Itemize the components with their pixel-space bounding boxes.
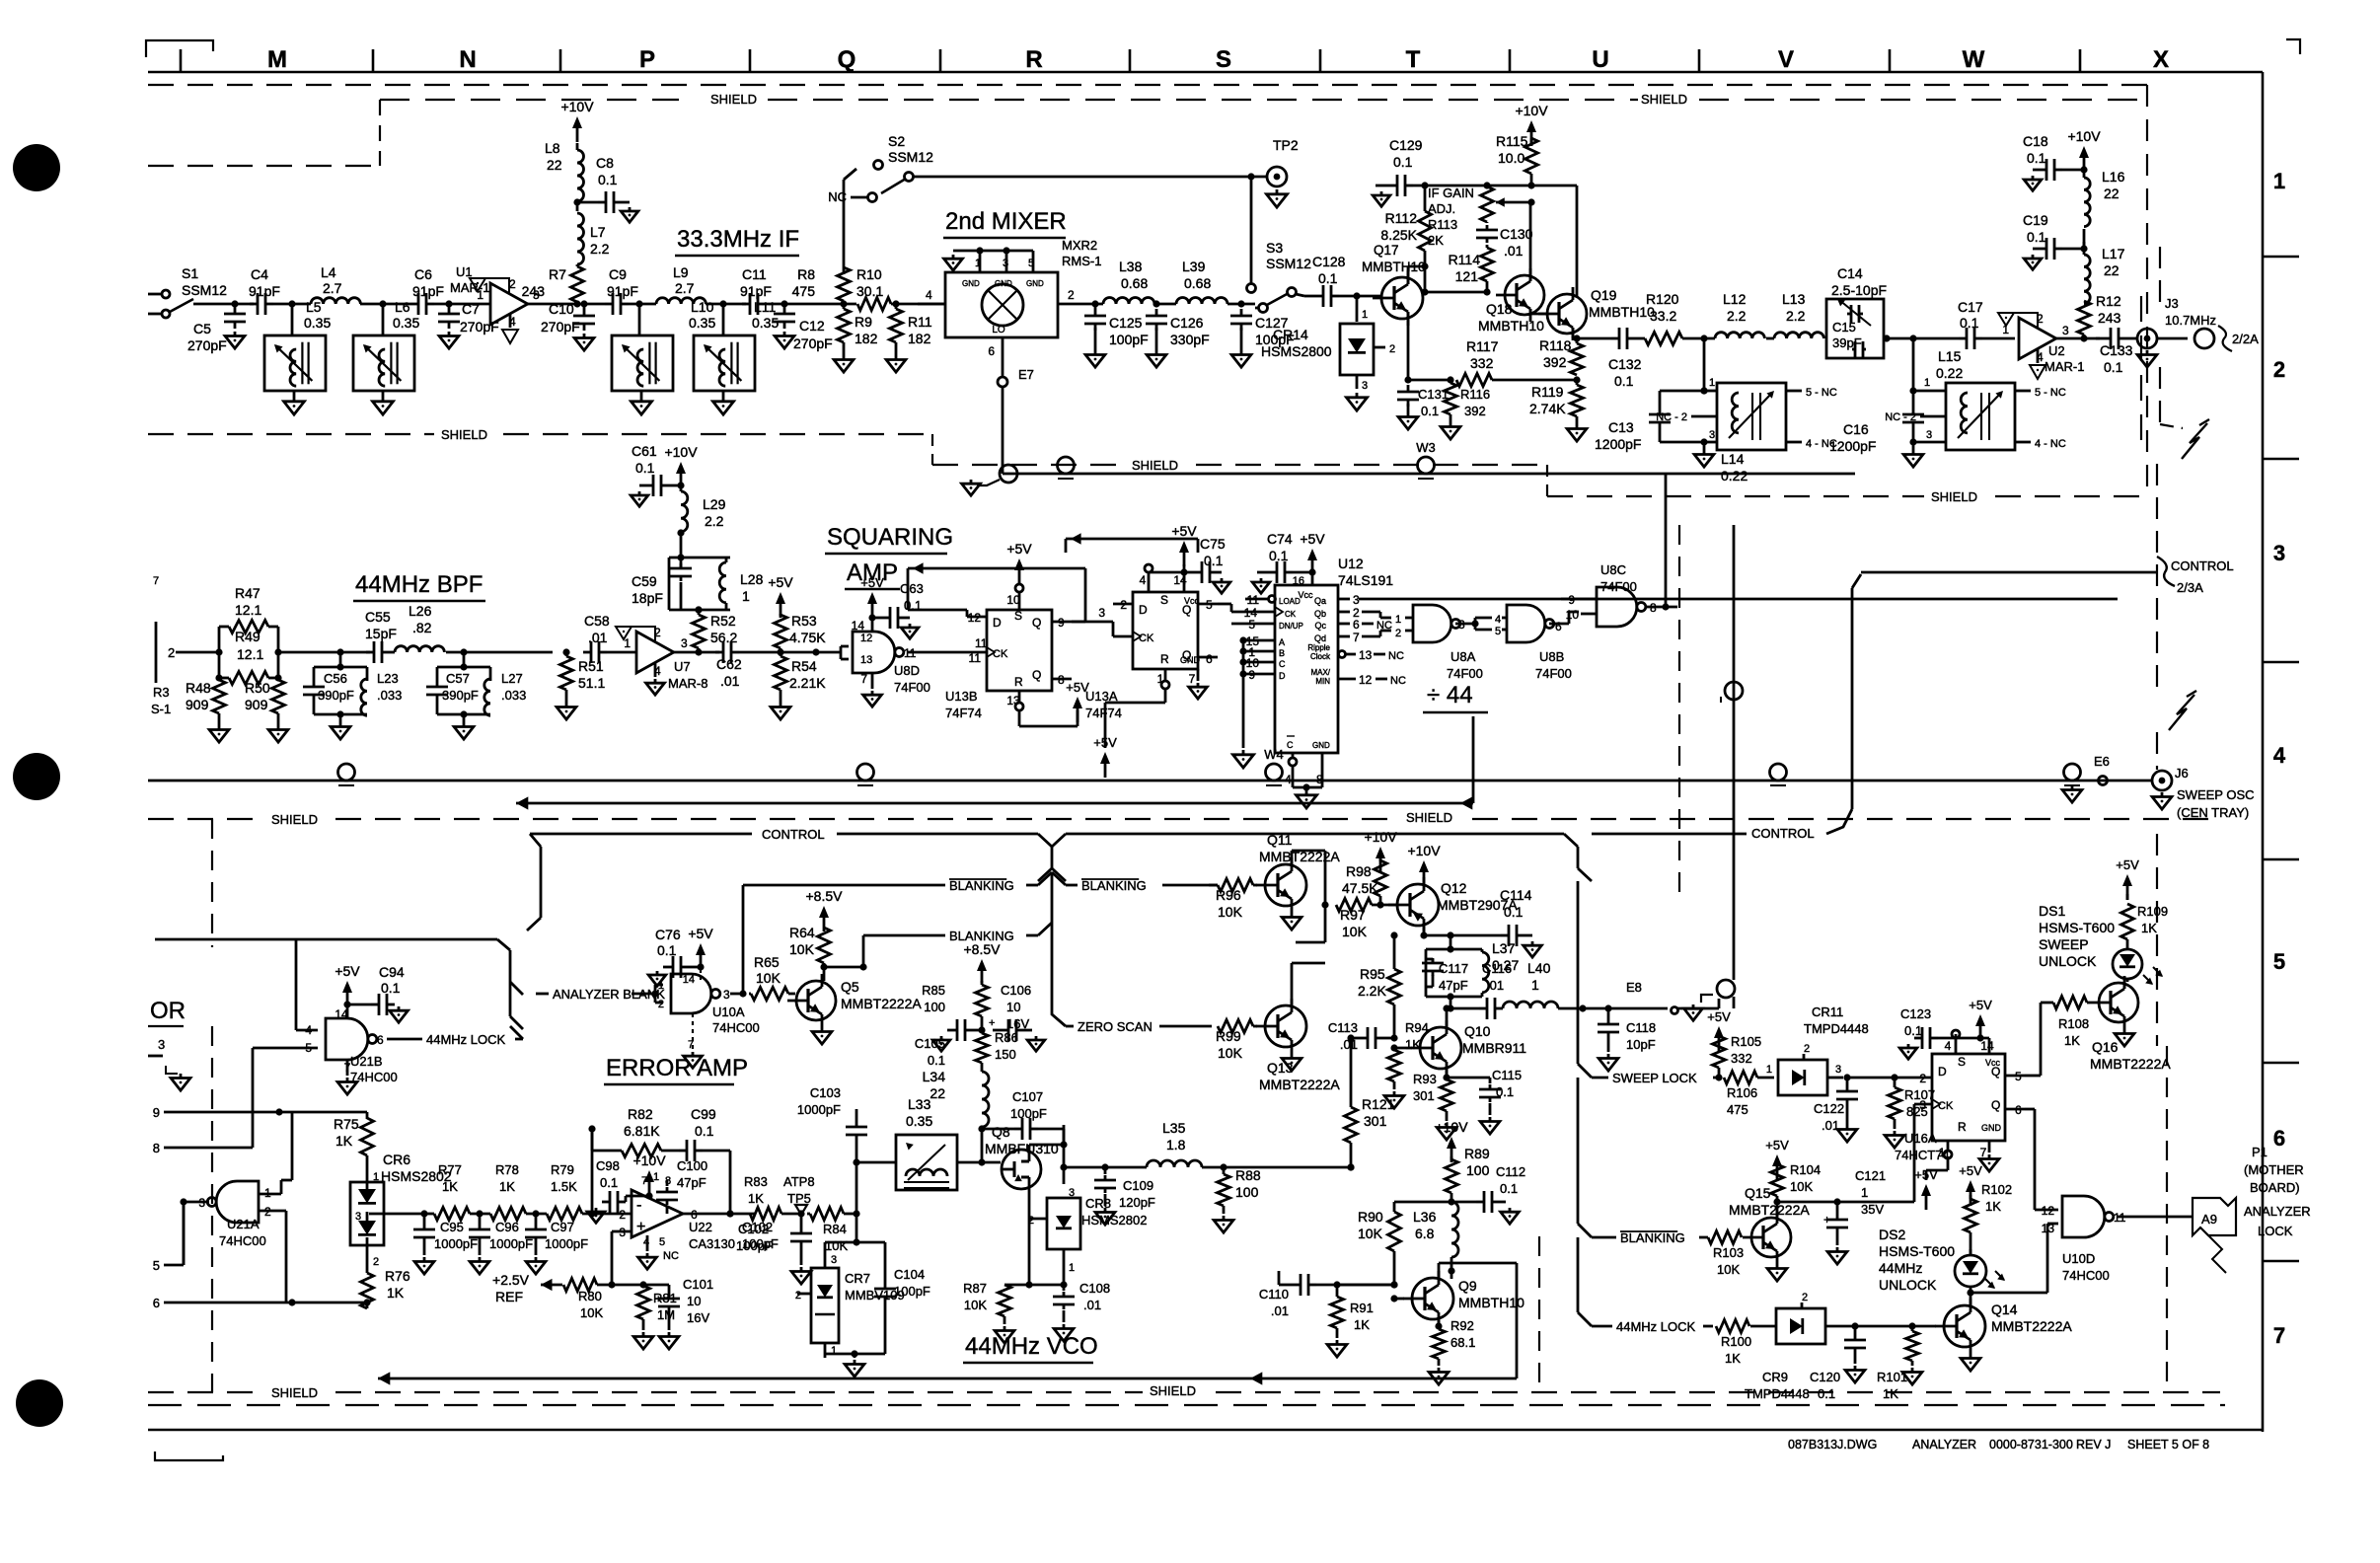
svg-text:3: 3 bbox=[1835, 1064, 1841, 1076]
svg-text:RMS-1: RMS-1 bbox=[1062, 254, 1101, 268]
svg-text:12: 12 bbox=[2042, 1204, 2055, 1218]
grid tick top bbox=[1319, 49, 1322, 72]
svg-text:R3: R3 bbox=[153, 685, 170, 700]
wire shield row bbox=[1003, 473, 1855, 476]
svg-text:R10: R10 bbox=[856, 266, 882, 282]
svg-text:NC - 2: NC - 2 bbox=[1656, 411, 1687, 423]
svg-text:R88: R88 bbox=[1235, 1167, 1261, 1183]
svg-text:10.7MHz: 10.7MHz bbox=[2165, 313, 2216, 328]
svg-text:+10V: +10V bbox=[1435, 1119, 1468, 1135]
svg-text:C109: C109 bbox=[1123, 1178, 1153, 1193]
svg-text:243: 243 bbox=[2098, 310, 2121, 326]
svg-text:R94: R94 bbox=[1405, 1020, 1429, 1035]
svg-text:SHIELD: SHIELD bbox=[1931, 489, 1977, 504]
svg-text:C57: C57 bbox=[446, 671, 470, 686]
svg-text:IF GAIN: IF GAIN bbox=[1428, 186, 1474, 200]
svg-text:1K: 1K bbox=[1405, 1037, 1421, 1052]
svg-text:2: 2 bbox=[2037, 312, 2044, 326]
svg-text:0.35: 0.35 bbox=[304, 315, 331, 331]
svg-text:+: + bbox=[655, 1294, 661, 1305]
wire R121 bottom row bbox=[1312, 1166, 1351, 1169]
svg-text:L40: L40 bbox=[1527, 960, 1551, 976]
shield dashed vertical J3 upper bbox=[2140, 296, 2142, 454]
svg-text:E8: E8 bbox=[1626, 980, 1642, 995]
node L7 top bbox=[573, 198, 580, 205]
svg-text:P1: P1 bbox=[2252, 1145, 2268, 1159]
corner mark top right bbox=[2286, 39, 2300, 54]
wire 44lock right b bbox=[1703, 1325, 1713, 1328]
svg-text:C13: C13 bbox=[1608, 419, 1634, 435]
svg-text:1K: 1K bbox=[1354, 1317, 1370, 1332]
svg-text:44MHz: 44MHz bbox=[1879, 1260, 1922, 1276]
svg-text:2: 2 bbox=[795, 1290, 801, 1302]
wire U8C node up bbox=[1665, 474, 1668, 607]
svg-text:Q14: Q14 bbox=[1991, 1302, 2018, 1317]
svg-text:C: C bbox=[1287, 740, 1294, 750]
svg-text:R100: R100 bbox=[1721, 1334, 1751, 1349]
svg-text:L35: L35 bbox=[1162, 1120, 1186, 1136]
svg-text:4: 4 bbox=[2273, 743, 2286, 768]
wire Q19 out bbox=[1577, 337, 1611, 340]
wire Q17 collector bbox=[1407, 266, 1410, 284]
svg-text:1K: 1K bbox=[1725, 1351, 1741, 1366]
wire C15 out bbox=[1884, 337, 1913, 340]
svg-text:L37: L37 bbox=[1492, 940, 1516, 956]
wire Q12 to C114 row bbox=[1424, 934, 1450, 937]
svg-text:39pF: 39pF bbox=[1832, 335, 1862, 350]
svg-text:NC: NC bbox=[1390, 675, 1406, 687]
transistor Q18 bbox=[1505, 275, 1544, 315]
wire Q14 collector bbox=[1970, 1293, 1972, 1305]
svg-text:1K: 1K bbox=[2064, 1033, 2080, 1048]
wire vert x1762 upper bbox=[1733, 525, 1736, 980]
svg-text:0.1: 0.1 bbox=[1614, 373, 1634, 389]
svg-text:CR8: CR8 bbox=[1085, 1196, 1111, 1211]
border bottom edge bbox=[148, 1429, 2263, 1431]
svg-text:6: 6 bbox=[153, 1296, 160, 1310]
ground hook at E7 row bbox=[1000, 465, 1017, 483]
svg-text:R117: R117 bbox=[1466, 338, 1499, 354]
svg-text:51.1: 51.1 bbox=[578, 675, 605, 691]
wire U21A inputs bbox=[259, 1193, 281, 1196]
inductor L10 tunable bbox=[612, 335, 673, 391]
cable break symbol 1 bbox=[2182, 423, 2207, 459]
wire C11 to R10 bbox=[766, 303, 856, 306]
svg-text:C56: C56 bbox=[324, 671, 347, 686]
svg-text:UNLOCK: UNLOCK bbox=[1879, 1277, 1937, 1293]
wire S2 to TP2 bbox=[914, 176, 1266, 179]
svg-text:BOARD): BOARD) bbox=[2250, 1180, 2300, 1195]
svg-text:2.5-10pF: 2.5-10pF bbox=[1831, 282, 1887, 298]
svg-text:U8C: U8C bbox=[1600, 562, 1626, 577]
wire stub5 to U21A bbox=[183, 1202, 186, 1265]
svg-text:R64: R64 bbox=[789, 925, 815, 940]
svg-text:SHIELD: SHIELD bbox=[271, 1385, 318, 1400]
svg-text:R87: R87 bbox=[963, 1281, 987, 1296]
svg-text:C102: C102 bbox=[738, 1222, 769, 1236]
wire blanking low bbox=[863, 934, 945, 937]
wire C17 to U2 bbox=[1982, 337, 2015, 340]
svg-text:C128: C128 bbox=[1312, 254, 1346, 269]
svg-text:22: 22 bbox=[930, 1085, 945, 1101]
node E7 bbox=[998, 377, 1007, 387]
svg-text:L7: L7 bbox=[590, 224, 606, 240]
svg-text:5: 5 bbox=[153, 1258, 160, 1273]
wire U21B inputs bbox=[296, 1029, 318, 1032]
svg-text:121: 121 bbox=[1455, 268, 1479, 284]
svg-text:L15: L15 bbox=[1938, 348, 1962, 364]
svg-text:A9: A9 bbox=[2201, 1212, 2217, 1227]
svg-text:+10V: +10V bbox=[1515, 103, 1548, 118]
svg-text:GND: GND bbox=[1026, 279, 1044, 288]
led DS1 bbox=[2113, 949, 2142, 979]
svg-text:0.35: 0.35 bbox=[906, 1113, 932, 1129]
svg-text:C125: C125 bbox=[1109, 315, 1143, 331]
svg-text:0.1: 0.1 bbox=[1904, 1023, 1922, 1038]
nand gate U8D bbox=[853, 632, 895, 673]
svg-text:100pF: 100pF bbox=[736, 1238, 773, 1253]
svg-text:182: 182 bbox=[855, 331, 878, 346]
corner bracket top left bbox=[146, 40, 213, 57]
svg-text:C129: C129 bbox=[1389, 137, 1423, 153]
svg-text:MXR2: MXR2 bbox=[1062, 238, 1097, 253]
inductor L33 tunable bbox=[896, 1135, 957, 1190]
feedthrough bbox=[1770, 764, 1787, 781]
shield dashed right vertical lower bbox=[2166, 1046, 2168, 1392]
wire zero scan b bbox=[1159, 1025, 1212, 1028]
svg-text:Q18: Q18 bbox=[1486, 301, 1513, 317]
node E6 bbox=[2099, 777, 2108, 785]
svg-text:L34: L34 bbox=[923, 1069, 946, 1084]
wire L35 out bbox=[1202, 1166, 1312, 1169]
svg-text:30.1: 30.1 bbox=[856, 283, 883, 299]
wire C15 tap down bbox=[1912, 338, 1915, 391]
svg-text:C58: C58 bbox=[584, 613, 610, 629]
svg-text:U12: U12 bbox=[1338, 556, 1364, 571]
svg-text:8: 8 bbox=[665, 1175, 671, 1187]
tank L37 C117 bbox=[1450, 935, 1452, 949]
svg-text:2: 2 bbox=[1802, 1292, 1808, 1303]
svg-text:0.68: 0.68 bbox=[1121, 275, 1148, 291]
svg-text:C126: C126 bbox=[1170, 315, 1204, 331]
switch S3 bbox=[1247, 284, 1256, 293]
control bundle chevron bbox=[1038, 834, 1052, 847]
svg-text:C15: C15 bbox=[1832, 320, 1856, 335]
svg-text:.033: .033 bbox=[377, 688, 402, 703]
flipflop U13A bbox=[1133, 592, 1198, 669]
svg-text:SHIELD: SHIELD bbox=[441, 427, 487, 442]
svg-text:C98: C98 bbox=[596, 1158, 620, 1173]
svg-text:L8: L8 bbox=[545, 140, 560, 156]
svg-text:C103: C103 bbox=[810, 1085, 841, 1100]
svg-text:1: 1 bbox=[1861, 1185, 1868, 1200]
offpage flag A9 bbox=[2193, 1198, 2236, 1235]
svg-text:+: + bbox=[989, 1017, 995, 1029]
power +10V L8 bbox=[576, 122, 579, 142]
svg-text:909: 909 bbox=[186, 697, 209, 712]
wire control mid bbox=[1066, 833, 1564, 836]
punch hole 2 bbox=[13, 753, 60, 800]
svg-text:270pF: 270pF bbox=[460, 319, 499, 335]
connector J6 bbox=[2152, 771, 2172, 790]
svg-text:REV J: REV J bbox=[2076, 1438, 2111, 1451]
feedthrough on shield row bbox=[1058, 457, 1075, 474]
svg-text:R104: R104 bbox=[1790, 1162, 1821, 1177]
potentiometer R113 bbox=[1481, 186, 1494, 222]
wire U12 Qd to U8A bbox=[1362, 635, 1380, 638]
svg-text:X: X bbox=[2153, 46, 2169, 73]
wire U12 Qb to U8A bbox=[1362, 611, 1380, 614]
svg-text:5: 5 bbox=[2273, 949, 2285, 974]
ground U21B bbox=[346, 1078, 349, 1082]
svg-text:0.1: 0.1 bbox=[1269, 548, 1289, 563]
svg-text:0.1: 0.1 bbox=[1504, 904, 1524, 920]
power +5V R109 bbox=[2126, 880, 2129, 900]
flag A9 zigzag bbox=[2208, 1235, 2226, 1273]
svg-text:+5V: +5V bbox=[768, 574, 793, 590]
power +5V R105 bbox=[1718, 1032, 1721, 1052]
svg-text:10K: 10K bbox=[1342, 924, 1368, 939]
wire control elbow bbox=[1826, 809, 1852, 834]
svg-text:R108: R108 bbox=[2058, 1016, 2089, 1031]
power +5V U13B bbox=[1018, 564, 1021, 584]
svg-text:6: 6 bbox=[1555, 620, 1562, 633]
wire blanking top bbox=[743, 884, 945, 887]
svg-text:Q19: Q19 bbox=[1591, 287, 1617, 303]
svg-text:R: R bbox=[1025, 46, 1042, 73]
opamp U22 b bbox=[632, 1190, 683, 1237]
switch S1 bbox=[148, 293, 161, 296]
wire Q18 emitter to Q19 bbox=[1529, 309, 1532, 314]
svg-text:10K: 10K bbox=[964, 1298, 987, 1312]
svg-text:10: 10 bbox=[1006, 1000, 1020, 1014]
transistor Q12 pnp bbox=[1397, 884, 1439, 926]
power +5V U8D bbox=[871, 598, 874, 618]
svg-text:+10V: +10V bbox=[632, 1153, 666, 1168]
svg-text:Vcc: Vcc bbox=[1184, 596, 1200, 606]
svg-text:R: R bbox=[1160, 652, 1169, 666]
shield dashed mid vertical bbox=[1678, 525, 1680, 893]
svg-text:0.1: 0.1 bbox=[1204, 553, 1224, 568]
feedthrough top right bbox=[1717, 980, 1735, 998]
svg-text:C4: C4 bbox=[251, 266, 268, 282]
svg-text:U7: U7 bbox=[674, 659, 691, 674]
svg-text:ATP8: ATP8 bbox=[783, 1174, 815, 1189]
wire Q15 to C121 bbox=[1777, 1201, 1837, 1204]
svg-text:NC: NC bbox=[1388, 650, 1404, 662]
svg-text:L12: L12 bbox=[1723, 291, 1747, 307]
svg-text:CONTROL: CONTROL bbox=[1751, 826, 1815, 841]
svg-text:C112: C112 bbox=[1496, 1164, 1525, 1179]
svg-text:ANALYZER: ANALYZER bbox=[2244, 1204, 2311, 1219]
svg-text:3: 3 bbox=[831, 1254, 837, 1266]
ground U22 pin4 b bbox=[646, 1235, 649, 1251]
svg-text:2.2K: 2.2K bbox=[1358, 983, 1386, 999]
svg-text:C114: C114 bbox=[1500, 887, 1532, 903]
svg-text:MAX/: MAX/ bbox=[1310, 668, 1330, 677]
svg-text:R50: R50 bbox=[245, 680, 270, 696]
shield dashed corner vertical bbox=[379, 100, 381, 166]
svg-text:1K: 1K bbox=[2141, 921, 2157, 935]
svg-text:2: 2 bbox=[1804, 1043, 1810, 1055]
svg-text:C121: C121 bbox=[1855, 1168, 1886, 1183]
svg-text:.01: .01 bbox=[720, 673, 740, 689]
svg-text:L5: L5 bbox=[306, 299, 322, 315]
wire Q19 collector rail bbox=[1576, 186, 1579, 296]
svg-text:C106: C106 bbox=[1001, 983, 1031, 998]
svg-text:3: 3 bbox=[355, 1211, 361, 1223]
svg-text:301: 301 bbox=[1364, 1113, 1387, 1129]
grid tick top bbox=[2079, 49, 2082, 72]
svg-text:C100: C100 bbox=[677, 1158, 707, 1173]
bottom left bracket bbox=[155, 1451, 223, 1460]
wire x1757 lower bbox=[1733, 997, 1736, 1008]
svg-text:MMBFU310: MMBFU310 bbox=[985, 1141, 1059, 1156]
svg-text:1: 1 bbox=[975, 258, 981, 269]
svg-text:CK: CK bbox=[1285, 610, 1297, 619]
wire Q9 emitter bbox=[1438, 1319, 1441, 1326]
svg-text:0.35: 0.35 bbox=[393, 315, 419, 331]
svg-text:CA3130: CA3130 bbox=[689, 1236, 735, 1251]
svg-text:0000-8731-300: 0000-8731-300 bbox=[1989, 1438, 2073, 1451]
svg-text:74F00: 74F00 bbox=[1447, 666, 1483, 681]
svg-text:C96: C96 bbox=[495, 1220, 519, 1234]
svg-text:MMBT2222A: MMBT2222A bbox=[2090, 1056, 2171, 1072]
wire Q16 collector bbox=[2123, 982, 2126, 985]
svg-text:0.1: 0.1 bbox=[2027, 229, 2046, 245]
svg-text:R84: R84 bbox=[823, 1222, 847, 1236]
svg-text:R120: R120 bbox=[1646, 291, 1679, 307]
svg-text:+5V: +5V bbox=[1959, 1163, 1982, 1178]
svg-text:3: 3 bbox=[723, 988, 730, 1002]
svg-text:R: R bbox=[1958, 1120, 1967, 1134]
svg-text:R114: R114 bbox=[1449, 252, 1481, 267]
svg-text:+5V: +5V bbox=[1707, 1009, 1731, 1024]
svg-text:C61: C61 bbox=[632, 443, 657, 459]
amplifier U1 bbox=[490, 283, 528, 325]
svg-text:C95: C95 bbox=[440, 1220, 464, 1234]
svg-text:6: 6 bbox=[377, 1033, 384, 1047]
transformer L15 pins bbox=[1913, 390, 1946, 393]
shield dashed lower top mid bbox=[335, 818, 1399, 820]
svg-text:C76: C76 bbox=[655, 927, 681, 942]
grid tick right bbox=[2263, 661, 2299, 664]
wire control vertical right 3 bbox=[1577, 1237, 1580, 1312]
svg-text:S: S bbox=[1958, 1055, 1966, 1069]
wire U21B in vertical bbox=[295, 939, 298, 1030]
svg-text:0.1: 0.1 bbox=[600, 1175, 618, 1190]
svg-text:C113: C113 bbox=[1328, 1020, 1358, 1035]
svg-text:Qc: Qc bbox=[1314, 621, 1326, 631]
svg-text:R52: R52 bbox=[710, 613, 736, 629]
capacitor C103 bbox=[855, 1141, 858, 1162]
svg-text:BLANKING: BLANKING bbox=[1620, 1230, 1685, 1245]
svg-text:R121: R121 bbox=[1362, 1096, 1395, 1112]
svg-text:TMPD4448: TMPD4448 bbox=[1804, 1021, 1869, 1036]
svg-text:R54: R54 bbox=[791, 658, 817, 674]
transistor Q14 bbox=[1944, 1305, 1985, 1347]
svg-text:270pF: 270pF bbox=[793, 335, 833, 351]
shield dashed vertical J3 col b bbox=[2159, 367, 2161, 424]
shield dashed lower top r bbox=[1472, 818, 2210, 820]
wire Q17 node right bbox=[1425, 291, 1487, 294]
svg-text:HSMS-T600: HSMS-T600 bbox=[1879, 1243, 1955, 1259]
svg-text:14: 14 bbox=[852, 619, 865, 633]
svg-text:C108: C108 bbox=[1079, 1281, 1110, 1296]
power +5V U16A top bbox=[1979, 1020, 1982, 1040]
wire blanking top b bbox=[1026, 884, 1038, 887]
wire control left bbox=[530, 833, 752, 836]
wire blanking diag right bbox=[1578, 1224, 1592, 1237]
wire U16A Q5 out bbox=[2025, 1075, 2041, 1078]
wire R79 to opamp bbox=[582, 1213, 632, 1216]
svg-text:C10: C10 bbox=[549, 301, 574, 317]
wire E8 to feedthrough bbox=[1677, 1007, 1719, 1010]
wire R84 node down bbox=[855, 1214, 858, 1242]
svg-text:18pF: 18pF bbox=[632, 590, 663, 606]
svg-text:-: - bbox=[636, 1197, 641, 1214]
svg-text:R113: R113 bbox=[1428, 217, 1457, 232]
inductor L11 tunable bbox=[694, 335, 755, 391]
transistor Q19 bbox=[1547, 294, 1587, 334]
svg-text:2.21K: 2.21K bbox=[789, 675, 826, 691]
svg-text:11: 11 bbox=[969, 651, 982, 665]
wire C103 top bbox=[855, 1108, 858, 1111]
nand gate U10A bbox=[671, 974, 711, 1013]
svg-text:A: A bbox=[1279, 637, 1285, 647]
wire Q12 collector bbox=[1423, 926, 1426, 935]
svg-text:CONTROL: CONTROL bbox=[2171, 558, 2234, 573]
svg-text:0.1: 0.1 bbox=[928, 1053, 945, 1068]
svg-text:C9: C9 bbox=[609, 266, 627, 282]
counter U12 74LS191 box bbox=[1275, 585, 1338, 753]
wire S2 to R8 bbox=[843, 180, 846, 274]
wire U21A output bbox=[184, 1201, 209, 1204]
svg-text:1000pF: 1000pF bbox=[797, 1102, 841, 1117]
svg-text:C19: C19 bbox=[2023, 212, 2048, 228]
ground L15 bbox=[1912, 442, 1915, 450]
svg-text:Qb: Qb bbox=[1314, 609, 1326, 619]
svg-text:22: 22 bbox=[2104, 262, 2120, 278]
border right edge bbox=[2262, 72, 2265, 1432]
transistor Q10 bbox=[1420, 1027, 1461, 1069]
svg-text:C97: C97 bbox=[551, 1220, 574, 1234]
svg-text:SQUARING: SQUARING bbox=[827, 524, 953, 551]
svg-text:3: 3 bbox=[681, 636, 688, 650]
svg-text:7: 7 bbox=[1353, 631, 1360, 644]
svg-text:10K: 10K bbox=[1218, 1045, 1243, 1061]
wire R65 to Q5 bbox=[788, 993, 795, 996]
svg-text:Ripple: Ripple bbox=[1307, 643, 1330, 652]
svg-text:R105: R105 bbox=[1731, 1034, 1761, 1049]
svg-text:74HC00: 74HC00 bbox=[2062, 1268, 2110, 1283]
svg-text:R65: R65 bbox=[754, 954, 780, 970]
wire L28 top bbox=[680, 533, 683, 558]
svg-text:MAR-8: MAR-8 bbox=[668, 676, 707, 691]
punch hole 3 bbox=[16, 1379, 63, 1427]
punch hole 1 bbox=[13, 144, 60, 191]
svg-text:74HC00: 74HC00 bbox=[219, 1233, 266, 1248]
wire R90 R91 row bbox=[1337, 1284, 1394, 1287]
wire mixer out bbox=[1085, 303, 1103, 306]
grid tick top bbox=[180, 49, 183, 72]
ground L10 bbox=[640, 397, 643, 402]
wire 44lock diag right bbox=[1578, 1312, 1592, 1326]
svg-text:100pF: 100pF bbox=[1010, 1106, 1047, 1121]
wire R120 out bbox=[1682, 337, 1715, 340]
svg-text:1200pF: 1200pF bbox=[1829, 438, 1876, 454]
wire Q8 drain bbox=[1028, 1145, 1031, 1150]
